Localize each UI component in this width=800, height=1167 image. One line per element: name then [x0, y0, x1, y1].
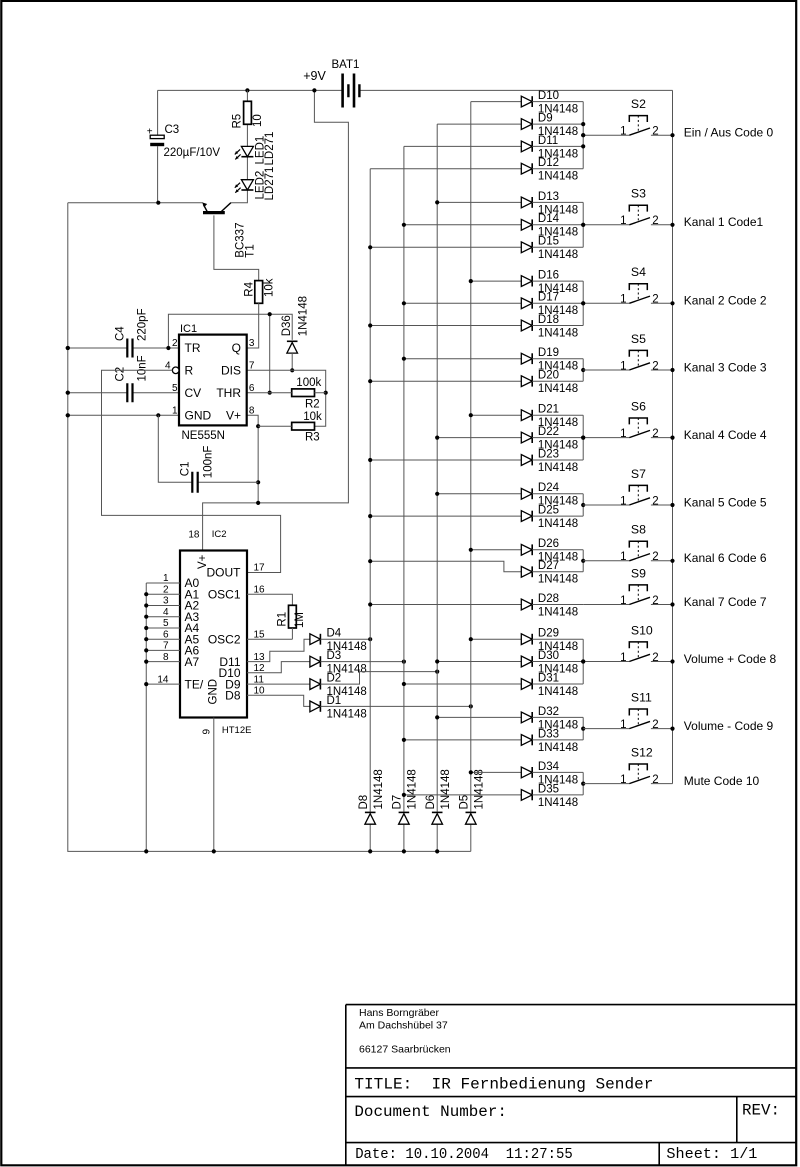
switch S9 — [583, 566, 672, 607]
LED LED2 — [235, 167, 276, 201]
svg-text:2: 2 — [652, 719, 658, 731]
junction D16 at bus — [469, 279, 473, 283]
svg-text:IC1: IC1 — [180, 323, 197, 335]
diode D16 1N4148 — [471, 270, 583, 296]
wire cathode line S2 group — [582, 102, 584, 169]
wire OSC1 to R1 — [247, 594, 292, 605]
junction THR riser at D36 wire — [268, 312, 272, 316]
svg-text:1N4148: 1N4148 — [327, 708, 367, 720]
svg-text:1: 1 — [620, 652, 626, 664]
svg-text:NE555N: NE555N — [182, 430, 225, 442]
resistor R2 100k — [247, 377, 326, 410]
junctions left ground rail — [66, 346, 70, 418]
diode D15 1N4148 — [370, 236, 583, 262]
svg-text:D35: D35 — [538, 783, 559, 795]
svg-text:C3: C3 — [165, 124, 180, 136]
junction D23 at bus — [368, 458, 372, 462]
svg-text:10k: 10k — [303, 411, 322, 423]
svg-text:IC2: IC2 — [212, 529, 227, 540]
switch S8 — [583, 523, 672, 564]
svg-text:1: 1 — [620, 719, 626, 731]
junction R5 at top rail — [245, 88, 249, 92]
svg-text:17: 17 — [254, 563, 266, 574]
svg-text:1N4148: 1N4148 — [538, 518, 578, 530]
svg-text:BAT1: BAT1 — [332, 59, 360, 71]
junction D31 at bus — [402, 682, 406, 686]
svg-text:C4: C4 — [114, 326, 126, 341]
diode D20 1N4148 — [370, 370, 583, 396]
svg-text:1: 1 — [620, 126, 626, 138]
svg-text:Hans Borngräber: Hans Borngräber — [359, 1007, 439, 1019]
junctions cathode line S2 — [581, 122, 585, 148]
svg-text:D1: D1 — [327, 695, 342, 707]
junction GND at C1 branch — [156, 413, 160, 417]
junctions cathode line S8 — [581, 559, 585, 563]
wire R4 to Q pin3 — [247, 303, 259, 348]
svg-text:1N4148: 1N4148 — [373, 769, 385, 809]
resistor R5 — [232, 101, 264, 128]
svg-text:D19: D19 — [538, 347, 559, 359]
junctions cathode line S11 — [581, 727, 585, 731]
diode D12 1N4148 — [370, 157, 583, 183]
svg-text:D18: D18 — [538, 314, 559, 326]
switch S11 — [583, 690, 672, 731]
svg-text:S10: S10 — [631, 623, 653, 637]
junction S7 at common rail — [670, 503, 674, 507]
diode D19 1N4148 — [404, 347, 583, 373]
svg-text:C1: C1 — [179, 462, 191, 477]
junction D29 at bus — [469, 637, 473, 641]
wire switch common rail from battery — [672, 90, 674, 783]
diode D10 1N4148 — [471, 90, 583, 116]
svg-text:D29: D29 — [538, 628, 559, 640]
svg-text:2: 2 — [652, 215, 658, 227]
wire bottom ground rail — [68, 203, 471, 852]
junction V+ branch at +9V feed — [256, 501, 260, 505]
svg-text:D9: D9 — [538, 113, 553, 125]
junction D2 at bus D9 — [435, 670, 439, 674]
junction S8 at common rail — [670, 559, 674, 563]
svg-text:9: 9 — [202, 729, 213, 735]
junction D19 at bus — [402, 357, 406, 361]
svg-text:1N4148: 1N4148 — [538, 462, 578, 474]
switch S10 — [583, 623, 672, 664]
wire base to R4 — [214, 215, 259, 280]
diode D11 1N4148 — [404, 135, 583, 161]
svg-text:1: 1 — [620, 495, 626, 507]
junction D21 at bus — [469, 413, 473, 417]
wire R pin4 to DOUT pin17 — [102, 370, 281, 572]
switch S5 — [583, 332, 672, 373]
junction D33 at bus — [402, 738, 406, 742]
svg-text:D15: D15 — [538, 236, 559, 248]
svg-text:2: 2 — [652, 126, 658, 138]
svg-text:V+: V+ — [226, 409, 241, 423]
diode D36 1N4148 — [281, 296, 310, 370]
svg-text:66127 Saarbrücken: 66127 Saarbrücken — [359, 1044, 451, 1056]
junction V+ at C1 — [256, 480, 260, 484]
wire cathode line S12 group — [582, 772, 584, 795]
svg-text:Volume + Code 8: Volume + Code 8 — [684, 652, 777, 666]
svg-text:1N4148: 1N4148 — [297, 296, 309, 336]
svg-text:Kanal 3 Code 3: Kanal 3 Code 3 — [684, 360, 767, 374]
diode D5 1N4148 — [458, 769, 485, 824]
svg-text:T1: T1 — [245, 244, 257, 257]
svg-text:1N4148: 1N4148 — [407, 769, 419, 809]
wire bus D8 bit — [470, 102, 472, 852]
svg-text:100k: 100k — [296, 377, 321, 389]
diode D14 1N4148 — [404, 213, 583, 239]
svg-text:Date: 10.10.2004 11:27:55: Date: 10.10.2004 11:27:55 — [355, 1146, 573, 1163]
svg-text:1N4148: 1N4148 — [538, 742, 578, 754]
diode D3 1N4148 — [247, 650, 404, 676]
resistor R3 10k — [258, 411, 322, 444]
junction D24 at bus — [435, 492, 439, 496]
svg-text:D17: D17 — [538, 292, 559, 304]
wire cathode line S7 group — [582, 494, 584, 516]
svg-text:Kanal 1 Code1: Kanal 1 Code1 — [684, 215, 764, 229]
svg-text:S8: S8 — [631, 523, 646, 537]
svg-text:1M: 1M — [294, 612, 306, 628]
svg-text:CV: CV — [185, 386, 202, 400]
junction cathode mid S10 — [581, 659, 585, 663]
junction D3 at bus D10 — [402, 660, 406, 664]
diode D2 1N4148 — [247, 672, 437, 699]
junction S5 at common rail — [670, 368, 674, 372]
svg-text:1N4148: 1N4148 — [538, 327, 578, 339]
svg-text:1: 1 — [620, 294, 626, 306]
diode D8 1N4148 — [358, 769, 385, 824]
junction S11 at common rail — [670, 727, 674, 731]
junction S10 at common rail — [670, 659, 674, 663]
svg-text:1: 1 — [620, 360, 626, 372]
svg-text:S11: S11 — [631, 690, 652, 704]
svg-text:Mute Code 10: Mute Code 10 — [684, 774, 760, 788]
junctions address line — [144, 592, 148, 686]
junction D22 at bus — [435, 436, 439, 440]
junctions cathode S2 switch tap — [581, 133, 585, 137]
svg-text:2: 2 — [652, 495, 658, 507]
svg-text:D21: D21 — [538, 404, 559, 416]
svg-text:S7: S7 — [631, 467, 646, 481]
svg-text:DIS: DIS — [221, 364, 241, 378]
junction D25 at bus — [368, 514, 372, 518]
svg-text:LD271: LD271 — [264, 132, 276, 166]
svg-text:Q: Q — [232, 341, 241, 355]
svg-text:Sheet: 1/1: Sheet: 1/1 — [666, 1146, 757, 1163]
diode D18 1N4148 — [370, 314, 583, 340]
junction D36 at DIS wire — [290, 368, 294, 372]
svg-text:R: R — [185, 364, 194, 378]
diode D34 1N4148 — [471, 761, 583, 787]
svg-text:10: 10 — [252, 114, 264, 127]
junctions cathode line S3 — [581, 223, 585, 227]
wire cathode line S4 group — [582, 281, 584, 325]
switch S4 — [583, 265, 672, 306]
svg-text:D25: D25 — [538, 505, 559, 517]
junction S4 at common rail — [670, 301, 674, 305]
diode D6 1N4148 — [425, 769, 452, 824]
svg-text:GND: GND — [208, 679, 220, 705]
junction D15 at bus — [368, 245, 372, 249]
junction D27 at bus — [368, 559, 372, 563]
svg-text:Kanal 7 Code 7: Kanal 7 Code 7 — [684, 595, 767, 609]
svg-text:D16: D16 — [538, 270, 559, 282]
svg-text:D20: D20 — [538, 370, 559, 382]
svg-text:R1: R1 — [276, 612, 288, 627]
junctions cathode line S6 — [581, 436, 585, 440]
wire C3 stem — [157, 90, 159, 202]
capacitor C3 — [147, 124, 221, 159]
svg-text:1N4148: 1N4148 — [538, 606, 578, 618]
svg-text:D2: D2 — [327, 673, 342, 685]
svg-text:Volume - Code 9: Volume - Code 9 — [684, 719, 774, 733]
svg-text:R3: R3 — [305, 432, 320, 444]
battery BAT1 — [332, 59, 360, 107]
svg-text:Document Number:: Document Number: — [354, 1103, 507, 1121]
svg-text:Kanal 6 Code 6: Kanal 6 Code 6 — [684, 551, 767, 565]
diode D31 1N4148 — [404, 672, 583, 698]
diode D33 1N4148 — [404, 728, 583, 754]
svg-text:THR: THR — [216, 386, 241, 400]
wire R1 to OSC2 — [247, 628, 292, 639]
svg-text:R2: R2 — [305, 398, 320, 410]
svg-text:Kanal 4 Code 4: Kanal 4 Code 4 — [684, 428, 767, 442]
junctions cathode line S4 — [581, 301, 585, 305]
svg-text:2: 2 — [652, 428, 658, 440]
svg-text:D5: D5 — [458, 795, 470, 810]
diode D9 1N4148 — [437, 113, 583, 139]
junction S2 at common rail — [670, 133, 674, 137]
svg-text:1N4148: 1N4148 — [473, 769, 485, 809]
wire cathode line S11 group — [582, 717, 584, 740]
title block — [346, 1005, 796, 1166]
diode D1 1N4148 — [247, 695, 471, 721]
svg-text:D24: D24 — [538, 482, 560, 494]
junction D35 at bus — [402, 793, 406, 797]
encoder IC2 HT12E — [157, 529, 265, 736]
svg-text:D23: D23 — [538, 448, 559, 460]
wire bus D11 bit — [369, 169, 371, 852]
wire CV net — [68, 392, 179, 394]
svg-text:220µF/10V: 220µF/10V — [164, 147, 221, 159]
svg-text:D6: D6 — [425, 795, 437, 810]
junction TR at left rail — [66, 346, 70, 350]
switch S12 — [583, 745, 672, 786]
junction C3 at ground wire — [156, 201, 160, 205]
svg-text:D27: D27 — [538, 560, 559, 572]
svg-text:TR: TR — [185, 341, 201, 355]
junction TR-THR riser — [166, 346, 170, 350]
svg-text:1: 1 — [620, 595, 626, 607]
junctions cathode line S12 — [581, 782, 585, 786]
junction THR riser at THR wire — [268, 391, 272, 395]
svg-text:S4: S4 — [631, 265, 646, 279]
wire cathode line S10 group — [582, 639, 584, 684]
junction +9V at battery — [312, 88, 316, 92]
junction D28 at bus — [368, 602, 372, 606]
wire TR-THR net — [68, 314, 292, 393]
svg-text:R5: R5 — [232, 114, 244, 129]
svg-text:2: 2 — [652, 551, 658, 563]
svg-text:D3: D3 — [327, 650, 342, 662]
svg-text:1: 1 — [620, 551, 626, 563]
svg-text:D14: D14 — [538, 213, 560, 225]
junction D26 at bus — [469, 548, 473, 552]
svg-text:S5: S5 — [631, 332, 646, 346]
svg-text:D11: D11 — [538, 135, 558, 147]
wire bus D9 bit — [436, 124, 438, 851]
diode D13 1N4148 — [437, 191, 583, 217]
junction S3 at common rail — [670, 223, 674, 227]
diode D24 1N4148 — [437, 482, 583, 508]
svg-text:1N4148: 1N4148 — [440, 769, 452, 809]
svg-text:HT12E: HT12E — [222, 725, 252, 736]
svg-text:S12: S12 — [631, 745, 653, 759]
svg-text:220pF: 220pF — [137, 308, 149, 341]
svg-text:Kanal 5 Code 5: Kanal 5 Code 5 — [684, 495, 767, 509]
svg-text:+9V: +9V — [303, 69, 326, 83]
wire cathode line S5 group — [582, 359, 584, 382]
wire bus D10 bit — [403, 146, 405, 851]
svg-text:D28: D28 — [538, 593, 559, 605]
switch S3 — [583, 187, 672, 228]
svg-text:2: 2 — [652, 360, 658, 372]
wire DIS net — [247, 370, 326, 426]
svg-text:S2: S2 — [631, 97, 646, 111]
svg-text:6: 6 — [249, 383, 255, 394]
svg-text:D36: D36 — [281, 315, 293, 336]
svg-text:D13: D13 — [538, 191, 559, 203]
svg-text:1: 1 — [620, 428, 626, 440]
resistor R4 — [244, 278, 276, 303]
svg-text:D31: D31 — [538, 672, 559, 684]
svg-text:1N4148: 1N4148 — [538, 249, 578, 261]
resistor R1 1M — [276, 605, 306, 628]
junction D20 at bus — [368, 379, 372, 383]
svg-text:10k: 10k — [264, 278, 276, 297]
junction cathode mid S4 — [581, 301, 585, 305]
op-amp-timer IC1 NE555N — [165, 323, 255, 442]
svg-text:7: 7 — [249, 361, 255, 372]
wire +9V feed to ICs — [203, 90, 349, 550]
svg-text:+: + — [147, 126, 153, 137]
junction D34 at bus — [469, 770, 473, 774]
svg-text:2: 2 — [652, 595, 658, 607]
svg-text:REV:: REV: — [742, 1102, 780, 1120]
svg-text:V+: V+ — [197, 554, 209, 569]
svg-text:GND: GND — [185, 409, 212, 423]
switch S6 — [583, 399, 672, 440]
svg-text:D8: D8 — [225, 689, 241, 703]
svg-text:1N4148: 1N4148 — [538, 171, 578, 183]
svg-text:R4: R4 — [244, 281, 256, 296]
transistor T1 BC337 — [202, 202, 257, 257]
wire cathode line S6 group — [582, 415, 584, 460]
svg-text:1N4148: 1N4148 — [538, 686, 578, 698]
wire cathode line S3 group — [582, 202, 584, 247]
diode D30 1N4148 — [437, 650, 583, 676]
junctions bottom rail — [144, 849, 439, 853]
svg-text:S3: S3 — [631, 187, 646, 201]
svg-text:2: 2 — [652, 652, 658, 664]
wire ground/emitter rail — [68, 202, 203, 204]
diode D28 1N4148 — [370, 593, 583, 619]
diode D4 1N4148 — [247, 628, 370, 662]
diode D25 1N4148 — [370, 505, 583, 531]
junction CV at left rail — [66, 391, 70, 395]
wire R5/LED chain — [231, 90, 248, 202]
junction D14 at bus — [402, 223, 406, 227]
svg-text:OSC1: OSC1 — [208, 587, 241, 601]
junction GND at left rail — [66, 413, 70, 417]
svg-text:A7: A7 — [185, 655, 200, 669]
svg-text:D8: D8 — [358, 795, 370, 810]
diode D17 1N4148 — [404, 292, 583, 318]
junction D32 at bus — [435, 715, 439, 719]
svg-text:2: 2 — [652, 774, 658, 786]
svg-text:Kanal 2 Code 2: Kanal 2 Code 2 — [684, 294, 767, 308]
svg-text:1N4148: 1N4148 — [538, 574, 578, 586]
junctions cathode line S7 — [581, 503, 585, 507]
diode D22 1N4148 — [437, 426, 583, 452]
svg-text:S6: S6 — [631, 399, 646, 413]
switch S7 — [583, 467, 672, 508]
junction S9 at common rail — [670, 602, 674, 606]
svg-text:1: 1 — [172, 406, 178, 417]
svg-text:DOUT: DOUT — [207, 566, 242, 580]
svg-text:1: 1 — [620, 774, 626, 786]
svg-text:18: 18 — [188, 530, 200, 541]
svg-text:100nF: 100nF — [202, 446, 214, 479]
wire IC1 V+ branch — [247, 415, 258, 503]
junction DIS at R2 right — [324, 391, 328, 395]
capacitor C4 — [114, 308, 148, 357]
wire GND pin1 net — [68, 414, 179, 416]
diode D21 1N4148 — [471, 404, 583, 430]
svg-text:C2: C2 — [114, 367, 126, 382]
junction cathode mid S3 — [581, 223, 585, 227]
wire IC2 address pins to ground line — [146, 583, 180, 851]
junction D18 at bus — [368, 323, 372, 327]
junction D13 at bus — [435, 200, 439, 204]
capacitor C1 100nF — [158, 415, 258, 493]
svg-text:1: 1 — [620, 215, 626, 227]
svg-text:2: 2 — [652, 294, 658, 306]
capacitor C2 — [114, 355, 148, 402]
junction D1 at bus D8 — [469, 704, 473, 708]
junction cathode mid S6 — [581, 436, 585, 440]
LED LED1 — [235, 132, 276, 166]
svg-text:TE/: TE/ — [185, 677, 204, 691]
diode D23 1N4148 — [370, 448, 583, 474]
svg-text:D34: D34 — [538, 761, 560, 773]
svg-text:1N4148: 1N4148 — [538, 797, 578, 809]
wire +9V top rail — [158, 89, 673, 91]
junctions cathode line S10 — [581, 659, 585, 663]
diode D29 1N4148 — [471, 628, 583, 654]
junctions cathode line S5 — [581, 368, 585, 372]
svg-text:TITLE: IR Fernbedienung Sende: TITLE: IR Fernbedienung Sender — [354, 1076, 653, 1094]
wire IC2 pin9 to ground rail — [213, 718, 215, 852]
svg-text:D26: D26 — [538, 538, 559, 550]
junction D4 at bus D11 — [368, 637, 372, 641]
diode D7 1N4148 — [392, 769, 419, 824]
diode D32 1N4148 — [437, 706, 583, 732]
wire cathode line S8 group — [582, 550, 584, 572]
svg-text:D10: D10 — [538, 90, 559, 102]
svg-text:S9: S9 — [631, 566, 646, 580]
